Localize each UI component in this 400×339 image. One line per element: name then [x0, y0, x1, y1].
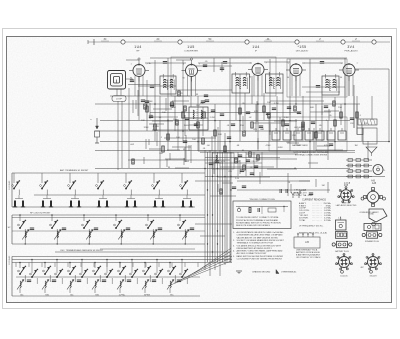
svg-text:BATTERY PLUG: BATTERY PLUG [335, 250, 349, 253]
svg-text:1U4-1U5: 1U4-1U5 [340, 276, 347, 278]
svg-text:2 TR A-C TVA: 2 TR A-C TVA [294, 194, 307, 197]
svg-text:4.7M: 4.7M [274, 103, 279, 105]
svg-text:6.8M: 6.8M [278, 147, 283, 149]
svg-text:LAST AUDIO SELECTED: LAST AUDIO SELECTED [336, 204, 357, 207]
svg-text:10K: 10K [267, 102, 271, 104]
svg-text:8.2 MA.: 8.2 MA. [324, 219, 331, 222]
svg-text:3C: 3C [103, 38, 106, 41]
svg-text:VALUES ABOVE 1 IN MMF UNLESS N: VALUES ABOVE 1 IN MMF UNLESS NOTED [237, 236, 279, 239]
svg-text:ROTATE BAND SWITCH TO PHONO PO: ROTATE BAND SWITCH TO PHONO POSITION [236, 221, 281, 224]
svg-text:1 TR A-C 5VA: 1 TR A-C 5VA [294, 189, 307, 192]
svg-text:A B: A B [305, 241, 309, 244]
svg-text:*PHONO CONNECTIONS: *PHONO CONNECTIONS [249, 199, 275, 201]
svg-text:1S5-3V4: 1S5-3V4 [370, 276, 377, 278]
svg-text:LOOP: LOOP [116, 99, 123, 101]
svg-text:ASTERISK * DENOTES PANEL LAMP: ASTERISK * DENOTES PANEL LAMP FEED AND [237, 250, 283, 253]
svg-text:1500: 1500 [184, 125, 190, 127]
svg-text:470K: 470K [265, 145, 271, 147]
svg-text:OSC. TRIMMERS AND PADDERS S3: OSC. TRIMMERS AND PADDERS S3 FRONT [60, 249, 104, 252]
svg-text:CLOCKWISE POSITION VIEWED FROM: CLOCKWISE POSITION VIEWED FROM FRONT [237, 259, 283, 261]
svg-text:DET.-AUDIO: DET.-AUDIO [296, 49, 309, 52]
svg-text:10K: 10K [218, 134, 222, 136]
svg-text:EXTERNAL CONNECTIONS SHOWN: EXTERNAL CONNECTIONS SHOWN [295, 154, 328, 157]
svg-text:CONDENSER GASKET: CONDENSER GASKET [359, 211, 379, 214]
svg-text:CHASSIS GROUND: CHASSIS GROUND [252, 271, 271, 274]
svg-text:1M: 1M [354, 145, 357, 147]
svg-text:RF COILS S2 FRONT: RF COILS S2 FRONT [30, 213, 51, 215]
svg-text:47K: 47K [154, 130, 158, 132]
svg-text:~W~: ~W~ [265, 38, 271, 41]
svg-text:*1S5: *1S5 [298, 45, 307, 49]
svg-text:TERMINALS TO B MINUS WITH VTVM: TERMINALS TO B MINUS WITH VTVM [237, 242, 273, 245]
svg-text:47K: 47K [254, 111, 258, 113]
svg-text:2.2M: 2.2M [210, 117, 215, 119]
svg-text:VOLTAGES SHOULD HOLD WITHIN 10: VOLTAGES SHOULD HOLD WITHIN 10% WITH [237, 244, 282, 247]
svg-text:AVC BUS CONNECTION POINT: AVC BUS CONNECTION POINT [237, 252, 268, 255]
svg-text:1U5: 1U5 [187, 45, 194, 49]
svg-text:6.8M: 6.8M [308, 195, 313, 197]
svg-text:OSC: OSC [196, 105, 201, 107]
svg-text:CURRENT READINGS: CURRENT READINGS [302, 199, 326, 202]
svg-text:PICKUP ACROSS TERMINALS SHOWN: PICKUP ACROSS TERMINALS SHOWN AND [236, 219, 279, 222]
svg-text:CONVERTER: CONVERTER [184, 50, 198, 52]
svg-text:3V4: 3V4 [347, 45, 354, 49]
svg-text:BAND SWITCH SHOWN IN EXTREME C: BAND SWITCH SHOWN IN EXTREME COUNTER [237, 255, 284, 258]
svg-text:S1 REAR: S1 REAR [8, 180, 11, 190]
svg-text:270K: 270K [295, 145, 301, 147]
svg-text:A-B: A-B [371, 180, 375, 183]
svg-text:TO USE PHONO INPUT CONNECT CRY: TO USE PHONO INPUT CONNECT CRYSTAL [236, 216, 280, 219]
svg-text:I.F. FREQUENCY 455 KC.: I.F. FREQUENCY 455 KC. [299, 225, 324, 227]
svg-text:SEE NOTE 4 BELOW FOR DETAILS: SEE NOTE 4 BELOW FOR DETAILS [236, 224, 270, 227]
svg-text:TOTAL: TOTAL [299, 219, 306, 222]
svg-text:6 BTA A-C 5TV: 6 BTA A-C 5TV [293, 191, 307, 194]
svg-text:SOCKET VOLTAGES MEASURED FROM: SOCKET VOLTAGES MEASURED FROM SOCKET [237, 239, 285, 242]
svg-text:3.3M: 3.3M [284, 117, 289, 119]
svg-text:487: 487 [360, 267, 363, 269]
svg-text:1U4: 1U4 [252, 45, 259, 49]
svg-text:ALL RESISTANCE VALUES IN OHMS.: ALL RESISTANCE VALUES IN OHMS. K=1000 AL… [237, 231, 285, 234]
svg-text:1M: 1M [322, 185, 325, 187]
svg-text:5C: 5C [208, 38, 211, 41]
svg-text:PWR.-AUDIO: PWR.-AUDIO [344, 49, 358, 52]
svg-text:OTHERWISE AC: OTHERWISE AC [281, 271, 297, 274]
svg-text:OR OTHER 67 1/2 V PACK: OR OTHER 67 1/2 V PACK [296, 256, 321, 259]
svg-text:1U4: 1U4 [134, 45, 141, 49]
svg-text:10K: 10K [162, 112, 166, 114]
svg-text:.05: .05 [250, 167, 253, 169]
svg-text:10K: 10K [141, 120, 145, 122]
svg-text:L.S.: L.S. [338, 217, 342, 219]
svg-text:CONDENSER VALUES LESS THAN 1 I: CONDENSER VALUES LESS THAN 1 IN MF AND [237, 234, 284, 237]
svg-text:2C: 2C [156, 38, 159, 41]
svg-text:S3 REAR: S3 REAR [8, 255, 11, 265]
svg-text:ON-OFF: ON-OFF [251, 161, 259, 163]
svg-text:ANT. TRIMMERS S1 FRONT: ANT. TRIMMERS S1 FRONT [60, 169, 89, 172]
svg-text:120K: 120K [143, 127, 149, 129]
svg-text:56K: 56K [310, 107, 314, 109]
svg-text:FRESH BATTERY AT RATED SUPPLY: FRESH BATTERY AT RATED SUPPLY [237, 247, 273, 250]
svg-text:2.2K: 2.2K [235, 178, 240, 180]
svg-text:SPEAKER PLUG: SPEAKER PLUG [365, 240, 379, 243]
svg-text:4X8: 4X8 [344, 185, 349, 187]
